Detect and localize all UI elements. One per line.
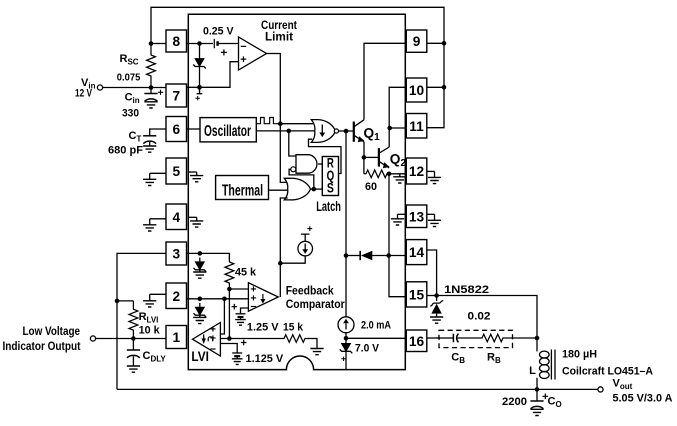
pin 5 box	[166, 158, 187, 184]
pin 16 box	[406, 330, 427, 352]
wire: latch Q feedback to NOR lower input	[309, 139, 342, 173]
node: diode / pin 14 / emitter rail	[386, 253, 391, 258]
capacitor CO (polarized, to ground)	[536, 389, 538, 401]
wire: LVI mid input / 15k line	[220, 338, 281, 340]
AND gate (R input gating)	[296, 155, 317, 174]
svg-text:14: 14	[409, 245, 425, 260]
ground: internal at pin 12	[399, 174, 401, 177]
svg-text:Low Voltage: Low Voltage	[23, 324, 81, 338]
svg-text:8: 8	[172, 34, 180, 49]
node: catch diode	[434, 293, 439, 298]
svg-text:2: 2	[172, 289, 180, 304]
wire: tap to RLVI	[117, 300, 133, 302]
capacitor CB	[438, 337, 454, 339]
pin 15 box	[406, 282, 427, 307]
inductor L 180uH	[536, 338, 538, 351]
svg-text:16: 16	[409, 334, 425, 349]
wire: AND output to latch R	[318, 163, 323, 165]
node: RLVI tap	[115, 299, 120, 304]
node: pin 3 zener	[198, 251, 203, 256]
svg-text:0.25 V: 0.25 V	[203, 25, 234, 37]
wire: Q2 collector to pins 10/11	[389, 87, 406, 147]
wire: oscillator output	[257, 130, 316, 132]
node: pin 8 internal	[197, 41, 202, 46]
terminal: Vin input	[97, 85, 102, 90]
svg-text:Coilcraft LO451–A: Coilcraft LO451–A	[562, 366, 653, 378]
resistor RSC	[147, 44, 156, 88]
wire: Q1 emitter to Q2 base node	[363, 142, 365, 158]
wire+ground: pin 4 external ground	[150, 218, 166, 220]
wire: NOR output to Q1 base	[339, 130, 354, 132]
op-amp LVI comparator	[193, 323, 221, 357]
resistor 15 k	[282, 335, 308, 343]
svg-text:+: +	[240, 54, 246, 66]
op-amp feedback comparator	[248, 283, 278, 312]
node: oscillator output branch	[287, 129, 292, 134]
svg-text:−: −	[250, 301, 256, 313]
node: squarewave joins CL line	[278, 121, 283, 126]
svg-text:Oscillator: Oscillator	[204, 123, 251, 140]
svg-text:Limit: Limit	[265, 29, 293, 43]
wire: battery to CL comparator - input	[218, 43, 239, 45]
svg-text:0.02: 0.02	[468, 311, 491, 323]
node: inductor / CO	[535, 387, 540, 392]
pin 12 box	[406, 158, 427, 184]
wire: node to Q2 base	[364, 156, 379, 158]
capacitor CT (to ground)	[143, 135, 156, 137]
svg-text:15: 15	[409, 287, 425, 302]
wire: pin 6 to CT	[150, 129, 166, 136]
transistor Q1	[353, 122, 355, 142]
svg-text:0.075: 0.075	[117, 73, 141, 84]
transistor Q2	[378, 148, 380, 166]
svg-text:680 pF: 680 pF	[108, 145, 143, 157]
node: pin 7 internal	[197, 85, 202, 90]
wire: pin 3 internal	[187, 253, 230, 259]
svg-text:12: 12	[409, 164, 425, 179]
wire: 45k to FB comparator input 1	[229, 288, 248, 290]
pin 10 box	[406, 78, 427, 102]
node: 45k-vertical / 15k	[227, 336, 232, 341]
node: OR output / AND feedback	[312, 187, 317, 192]
resistor RLVI	[129, 301, 138, 339]
resistor RB	[480, 334, 506, 342]
wire: 45k node down to LVI node	[228, 289, 230, 339]
IC package outline with orientation notch	[188, 14, 405, 369]
arrow inside NOR gate	[321, 125, 323, 133]
wire: output rail	[117, 388, 598, 390]
capacitor Cin (polarized, to ground)	[150, 88, 152, 94]
pin 9 box	[406, 30, 427, 52]
svg-text:2.0 mA: 2.0 mA	[361, 320, 391, 332]
pin 1 box	[166, 326, 187, 349]
svg-text:4: 4	[172, 210, 180, 225]
node: snubber/inductor junction	[535, 336, 540, 341]
wire: pin 16 to snubber	[427, 337, 440, 339]
svg-text:5: 5	[172, 164, 180, 179]
svg-text:Feedback: Feedback	[286, 283, 334, 297]
NOR gate (drive gate with down arrow)	[311, 120, 335, 143]
svg-text:Indicator Output: Indicator Output	[3, 339, 81, 353]
svg-text:1.125 V: 1.125 V	[246, 353, 284, 365]
svg-text:Thermal: Thermal	[222, 182, 263, 199]
pin 11 box	[406, 114, 427, 139]
svg-text:1N5822: 1N5822	[444, 284, 489, 296]
wire: osc line to CL line (NOR top input)	[280, 123, 313, 125]
wire+ground: pin 12 external ground	[427, 170, 435, 172]
svg-text:45 k: 45 k	[235, 267, 257, 279]
svg-text:L: L	[529, 365, 536, 377]
op-amp U1 current limit comparator	[239, 37, 267, 70]
block: Oscillator	[200, 118, 256, 142]
OR gate (set latch)	[284, 178, 310, 200]
node: pin 2 zener	[198, 297, 203, 302]
wire: RSC top to pin 8	[151, 43, 166, 45]
wire: thermal to OR gate lower input	[269, 189, 288, 191]
svg-text:Latch: Latch	[316, 199, 341, 214]
squarewave symbol on CL line	[257, 118, 285, 124]
wire: pin 14 external to catch node	[427, 250, 437, 296]
current source (to FB comparator)	[298, 241, 313, 256]
svg-text:330: 330	[122, 108, 139, 120]
wire: Q2 emitter down to pin 15	[389, 174, 406, 297]
terminal: Vout	[598, 387, 603, 392]
resistor 45 k	[225, 256, 234, 289]
resistor 60 (Q2 base-emitter)	[363, 157, 365, 173]
pin 4 box	[166, 204, 187, 230]
svg-text:S: S	[327, 181, 334, 196]
svg-text:−: −	[210, 344, 216, 356]
snubber dashed box	[439, 330, 513, 347]
wire+ground: pin 2 external ground	[150, 293, 166, 295]
svg-text:2200: 2200	[502, 396, 527, 408]
svg-text:11: 11	[409, 119, 424, 134]
wire: pin 3 to output sense rail	[117, 253, 166, 389]
terminal: Low Voltage Indicator Output	[90, 336, 95, 341]
battery 0.25 V offset	[213, 39, 215, 48]
wire+ground: pin 5 external ground	[150, 172, 166, 174]
svg-text:13: 13	[409, 209, 425, 224]
pin 14 box	[406, 240, 427, 265]
arrow + hook inside LVI	[203, 335, 205, 339]
wire: top rail from RSC top to pins 9/10/11 bus	[151, 7, 444, 127]
svg-text:15 k: 15 k	[283, 321, 304, 333]
svg-text:9: 9	[413, 34, 421, 49]
battery 1.125 V reference	[220, 344, 237, 354]
diode: internal catch diode (points left)	[346, 255, 360, 257]
node: Vin / RSC bottom / Cin	[149, 85, 154, 90]
wire: pin 7 node to CL comparator + input	[200, 62, 239, 88]
pin 13 box	[406, 205, 427, 228]
wire: OR output feedback to AND bubble input	[289, 169, 314, 189]
node: Q2 collector rail / pin 11	[387, 126, 392, 131]
svg-text:7: 7	[172, 89, 180, 104]
wire: LVI output terminal to pin 1	[96, 338, 166, 340]
svg-text:1.25 V: 1.25 V	[247, 321, 279, 333]
wire: pin 6 to oscillator	[187, 128, 201, 130]
wire: Q1 collector to pin 9	[364, 43, 406, 120]
svg-text:7.0 V: 7.0 V	[355, 343, 380, 355]
wire: node to pin 14	[389, 255, 407, 257]
node: rail / catch diode	[344, 253, 349, 258]
svg-text:LVI: LVI	[191, 349, 209, 364]
node: bus-pin10 junction	[442, 85, 447, 90]
wire: pin 11 tap	[390, 127, 407, 129]
wire: CL comparator output down to feedback node	[267, 54, 288, 183]
pin 3 box	[166, 242, 187, 265]
wire: 15k to ground	[308, 339, 318, 349]
zener 7.0 V	[341, 343, 350, 351]
capacitor CDLY (to ground)	[132, 339, 134, 351]
wire: pin 10 to bus	[427, 86, 444, 88]
wire: OR output to latch S	[311, 188, 323, 190]
current source 2.0 mA	[338, 317, 354, 333]
wire: osc branch down to AND top input	[289, 131, 296, 156]
svg-text:6: 6	[172, 122, 180, 137]
zener diode at pin 3	[199, 258, 201, 262]
svg-text:1: 1	[172, 330, 180, 345]
node: RSC top / pin 8	[149, 41, 154, 46]
svg-text:5.05 V/3.0 A: 5.05 V/3.0 A	[613, 393, 673, 405]
wire: FB output rail up to OR gate third input	[280, 198, 287, 297]
wire: LVI + input to pin2 line	[220, 299, 224, 334]
supply tick above source	[301, 234, 310, 241]
node: Q2 emitter	[387, 172, 392, 177]
pin 2 box	[166, 283, 187, 309]
node: RLVI bottom / CDLY	[131, 336, 136, 341]
node: FB rail / current source	[278, 261, 283, 266]
zener diode pin8 node to pin7 node	[199, 54, 201, 58]
wire: Q2 emitter to pin 12	[389, 173, 406, 175]
wire: node to inductor	[437, 296, 537, 339]
wire: pin 9 to bus	[427, 42, 444, 44]
node: 45k bottom	[227, 287, 232, 292]
svg-text:−: −	[240, 41, 246, 53]
node: pin2/LVI + branch	[222, 297, 227, 302]
svg-text:Comparator: Comparator	[286, 297, 345, 311]
node: bus-pin9 junction	[442, 41, 447, 46]
wire+ground: pin 4 internal ground	[189, 216, 197, 218]
pin 8 box	[166, 30, 187, 52]
zener diode at pin 2	[199, 303, 201, 307]
wire/node: source to pin 16	[345, 332, 347, 343]
wire: internal rail from NOR output down	[345, 131, 347, 317]
node: NOR output / internal rail	[344, 129, 349, 134]
supply tick below pin 7 node	[197, 87, 203, 93]
pin 6 box	[166, 117, 187, 142]
wire+ground: pin 5 internal ground	[189, 171, 197, 173]
arrow inside FB comparator	[262, 294, 264, 299]
pin 7 box	[166, 84, 187, 107]
inductor core lines	[551, 350, 555, 380]
svg-text:10: 10	[409, 83, 425, 98]
wire: node to 250uA source	[280, 256, 305, 263]
svg-text:60: 60	[365, 181, 377, 193]
svg-text:12 V: 12 V	[75, 88, 92, 100]
battery 1.25 V reference	[241, 308, 249, 313]
block: Thermal	[216, 176, 269, 200]
latch box	[322, 157, 338, 196]
AND gate inverted input bubble	[291, 167, 296, 172]
node: Q1 emitter / Q2 base / 60 ohm	[362, 155, 367, 160]
wire: pin 7 internal	[187, 86, 200, 88]
svg-text:10 k: 10 k	[139, 324, 161, 336]
wire: pin 15 to node	[427, 295, 437, 297]
svg-text:180 µH: 180 µH	[562, 349, 597, 361]
wire: pin 2 internal	[187, 298, 249, 300]
svg-text:3: 3	[172, 247, 180, 262]
wire+ground: pin 13 internal ground	[398, 213, 406, 215]
diode 1N5822 catch (schottky)	[436, 296, 438, 301]
wire: Vin to pin 7	[103, 87, 166, 89]
wire: pin 8 into IC	[187, 43, 214, 45]
wire+ground: pin 13 external ground	[427, 213, 435, 215]
